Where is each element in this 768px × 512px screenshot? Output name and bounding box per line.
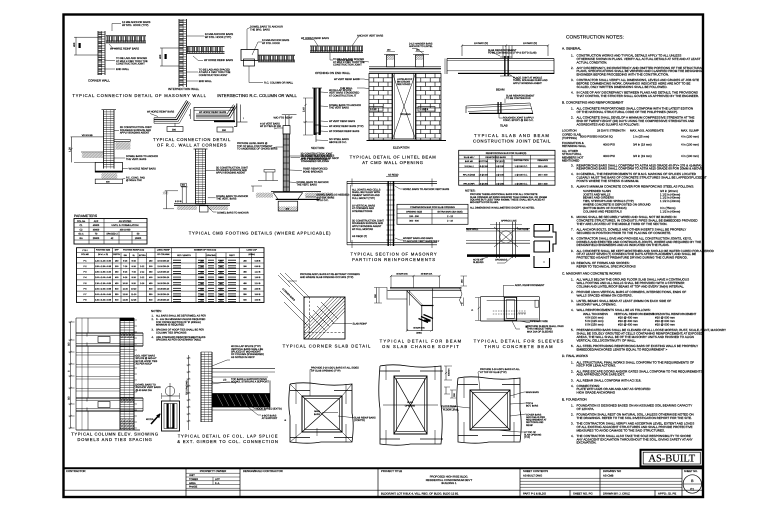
svg-text:AXF: AXF	[94, 220, 99, 223]
svg-text:1.: 1.	[571, 107, 574, 111]
svg-text:2.30 x 2.30 x 0.50: 2.30 x 2.30 x 0.50	[95, 282, 112, 285]
svg-text:W/ VERT REINF BARS: W/ VERT REINF BARS	[334, 78, 360, 81]
svg-text:LOCATION: LOCATION	[562, 128, 577, 132]
svg-text:MID-DEPTH FOR SLABS.: MID-DEPTH FOR SLABS.	[470, 201, 499, 204]
svg-text:0.35 B: 0.35 B	[255, 259, 261, 262]
sheet border frame	[64, 15, 704, 498]
svg-text:SLEEVES: SLEEVES	[473, 261, 484, 264]
svg-text:(MIN): (MIN)	[416, 332, 422, 335]
detail cmb footing center section	[237, 115, 349, 211]
svg-text:THE BRG. BARS: THE BRG. BARS	[250, 28, 270, 31]
svg-text:PHASE: PHASE	[189, 486, 198, 489]
AS-BUILT stamp box	[641, 450, 704, 467]
svg-text:TO BE CONTINUOUS: TO BE CONTINUOUS	[506, 97, 531, 100]
svg-text:AS REQD: AS REQD	[388, 174, 399, 177]
svg-text:TYPICAL SECTION OF MASONRY: TYPICAL SECTION OF MASONRY	[351, 252, 438, 257]
svg-text:A. GENERAL: A. GENERAL	[562, 47, 581, 51]
svg-text:END WALL: END WALL	[116, 68, 130, 71]
svg-text:SPACING: SPACING	[207, 254, 216, 257]
svg-text:W/ 10 TIES @ 200: W/ 10 TIES @ 200	[260, 125, 281, 128]
svg-text:OF R.C. WALL AT CORNERS: OF R.C. WALL AT CORNERS	[157, 143, 227, 148]
svg-text:1 1/2 in (40mm): 1 1/2 in (40mm)	[660, 209, 680, 213]
svg-text:THAT CONTROL THE STRICTER SHAL: THAT CONTROL THE STRICTER SHALL GOVERN A…	[577, 94, 700, 98]
svg-text:COL MK: COL MK	[81, 253, 89, 256]
svg-text:REINFORCING BAR FOR SLABS(S: REINFORCING BAR FOR SLABS(S)	[486, 152, 527, 155]
svg-text:AS PER NSCP: AS PER NSCP	[136, 363, 153, 366]
svg-text:MENTIONED: MENTIONED	[562, 158, 579, 162]
svg-text:AS REQD (T): AS REQD (T)	[352, 235, 367, 238]
svg-text:16-20 DIA 20: 16-20 DIA 20	[157, 282, 170, 285]
svg-text:SECURED IN POSITION PRIOR TO T: SECURED IN POSITION PRIOR TO THE PLACING…	[577, 231, 672, 235]
svg-text:3/4 in (19 mm): 3/4 in (19 mm)	[633, 143, 652, 147]
svg-text:10-20: 10-20	[131, 287, 137, 290]
svg-text:C. MASONRY AND CONCRETE WORKS: C. MASONRY AND CONCRETE WORKS	[562, 271, 621, 275]
svg-text:TOWER: TOWER	[189, 478, 198, 481]
svg-text:BARS: BARS	[314, 413, 321, 416]
svg-text:1.60 B: 1.60 B	[255, 276, 261, 279]
svg-text:40 BAR DIA: 40 BAR DIA	[413, 326, 425, 329]
svg-text:1 @ 200 O.C.: 1 @ 200 O.C.	[515, 183, 528, 186]
svg-text:6.: 6.	[571, 344, 574, 348]
svg-text:W/ STD. HOOK: W/ STD. HOOK	[262, 42, 280, 45]
svg-text:LINTEL/ROOF: LINTEL/ROOF	[397, 78, 413, 81]
svg-text:SHEET CONTENTS: SHEET CONTENTS	[523, 469, 548, 473]
svg-text:1.50 x 1.50 x 0.35: 1.50 x 1.50 x 0.35	[95, 265, 112, 268]
svg-text:COVER BARS: COVER BARS	[526, 413, 542, 416]
svg-text:12-25: 12-25	[123, 299, 129, 302]
svg-text:6.: 6.	[571, 215, 574, 219]
svg-text:CONC. EPOXY @ 300 O.C.: CONC. EPOXY @ 300 O.C.	[503, 119, 534, 122]
svg-text:10.: 10.	[571, 261, 575, 265]
svg-text:40 BAR DIA: 40 BAR DIA	[421, 273, 433, 276]
svg-text:ELEVATION: ELEVATION	[393, 146, 409, 150]
svg-text:W/ 10 O.C.: W/ 10 O.C.	[317, 199, 329, 202]
svg-text:POINTS WHERE THE STRESS IS MIN: POINTS WHERE THE STRESS IS MINIMUM.	[577, 179, 640, 183]
svg-text:4000 PSI: 4000 PSI	[603, 154, 615, 158]
svg-text:5.: 5.	[571, 185, 574, 189]
svg-text:150 = 400: 150 = 400	[538, 165, 548, 168]
svg-text:6 IN (150 mm): 6 IN (150 mm)	[585, 323, 604, 327]
svg-text:SLAB: SLAB	[407, 401, 413, 404]
svg-text:FOOTING SIZE: FOOTING SIZE	[96, 249, 111, 252]
svg-text:CONSTRUCTION JOINT: CONSTRUCTION JOINT	[333, 64, 362, 67]
svg-text:2.: 2.	[571, 66, 574, 70]
svg-text:1.00: 1.00	[69, 147, 72, 152]
svg-text:BOND BREAKER: BOND BREAKER	[303, 170, 323, 173]
svg-text:APPROX LINE: APPROX LINE	[501, 220, 517, 223]
svg-text:150 = 400: 150 = 400	[538, 174, 548, 177]
svg-text:E. FOUNDATION: E. FOUNDATION	[562, 397, 587, 401]
svg-text:4.: 4.	[571, 91, 574, 95]
svg-text:AT SUPPORT: AT SUPPORT	[262, 417, 278, 420]
svg-text:W/ FULL MORTAR: W/ FULL MORTAR	[352, 228, 373, 231]
svg-text:2.60 x 2.60 x 0.55: 2.60 x 2.60 x 0.55	[95, 287, 112, 290]
svg-text:AT CMD WALL OPENING: AT CMD WALL OPENING	[362, 160, 424, 165]
svg-text:STAGGERED SPLICING: STAGGERED SPLICING	[301, 160, 329, 163]
svg-text:NEW WALL: NEW WALL	[466, 228, 479, 231]
svg-text:ALL REBAR SHALL CONFORM WITH A: ALL REBAR SHALL CONFORM WITH ACI 318.	[577, 378, 642, 382]
svg-text:3.: 3.	[571, 422, 574, 426]
svg-text:10 @ 200: 10 @ 200	[479, 183, 489, 186]
svg-text:AS NOTED IN NSCP: AS NOTED IN NSCP	[231, 356, 255, 359]
detail rc wall footing left	[69, 110, 159, 184]
svg-text:GL-1: GL-1	[78, 233, 84, 236]
svg-text:2.: 2.	[152, 318, 154, 321]
svg-text:VD NG BB: VD NG BB	[82, 134, 93, 137]
svg-text:(TOPPING): (TOPPING)	[562, 136, 577, 140]
svg-text:2-12Ø: 2-12Ø	[370, 108, 377, 111]
svg-text:TYPICAL CMB FOOTING DETAILS: TYPICAL CMB FOOTING DETAILS (WHERE APPLI…	[189, 231, 331, 236]
svg-text:AGGREGATES AND SLUMPS AS FOLLO: AGGREGATES AND SLUMPS AS FOLLOWS:	[577, 122, 640, 126]
svg-text:3.40 x 3.40 x 0.65: 3.40 x 3.40 x 0.65	[95, 299, 112, 302]
svg-text:5000 PSI/350 KG/CM SQ: 5000 PSI/350 KG/CM SQ	[580, 134, 614, 138]
svg-text:ALL BARS SHALL BE DEFORMED, AS: ALL BARS SHALL BE DEFORMED, AS PER	[156, 315, 206, 318]
svg-text:HORIZ. BARS TO ANCHOR VERT BAR: HORIZ. BARS TO ANCHOR VERT BARS	[403, 188, 450, 191]
svg-text:AT TOP OF: AT TOP OF	[524, 431, 537, 434]
svg-text:2.40: 2.40	[303, 107, 306, 112]
svg-text:3.: 3.	[152, 329, 154, 332]
svg-text:ACTUAL CONDITION.: ACTUAL CONDITION.	[577, 60, 608, 64]
svg-text:MAX. SLUMP: MAX. SLUMP	[681, 128, 699, 132]
detail column lap splice and girder connection	[186, 352, 275, 430]
svg-text:OF 120 KPA.: OF 120 KPA.	[577, 407, 595, 411]
svg-text:SEE SCHED: SEE SCHED	[397, 83, 411, 86]
svg-text:W/O FTG REINF: W/O FTG REINF	[274, 117, 293, 120]
detail slab opening plan middle	[379, 365, 460, 445]
svg-text:MAX. AGG. AGGREGATE: MAX. AGG. AGGREGATE	[630, 128, 664, 132]
svg-text:01: 01	[690, 488, 694, 492]
svg-text:MAX DIA OF SLEEVES: MAX DIA OF SLEEVES	[527, 330, 553, 333]
svg-text:TO ANCHOR VERT BARS ONLY: TO ANCHOR VERT BARS ONLY	[403, 240, 440, 243]
svg-text:40000: 40000	[93, 224, 100, 227]
detail lap splice section box	[146, 383, 180, 431]
svg-text:8.: 8.	[571, 237, 574, 241]
svg-text:1 @ 200: 1 @ 200	[496, 183, 505, 186]
svg-text:3.00 x 3.00 x 0.60: 3.00 x 3.00 x 0.60	[95, 293, 112, 296]
svg-text:APPLY BONDING AGENT: APPLY BONDING AGENT	[216, 172, 246, 175]
svg-text:4.: 4.	[152, 336, 154, 339]
svg-text:2.: 2.	[571, 116, 574, 120]
svg-text:TOP &: TOP &	[526, 402, 533, 405]
svg-text:THE VERT. BARS: THE VERT. BARS	[297, 184, 318, 187]
svg-text:20000: 20000	[93, 237, 100, 240]
svg-text:5.: 5.	[571, 328, 574, 332]
svg-text:3.: 3.	[571, 163, 574, 167]
svg-text:NOTES:: NOTES:	[465, 188, 476, 192]
svg-text:HOOK BARS 2 (EXT'D): HOOK BARS 2 (EXT'D)	[256, 407, 282, 410]
svg-text:400 & 600: 400 & 600	[120, 228, 131, 231]
svg-text:0.60 B: 0.60 B	[255, 265, 261, 268]
svg-text:LONG. REINF: LONG. REINF	[157, 249, 171, 252]
svg-text:AREA: AREA	[189, 482, 196, 485]
svg-text:NSCP FOR LEAN ACTIONS.: NSCP FOR LEAN ACTIONS.	[577, 364, 617, 368]
svg-text:1 @ 150 O.C.: 1 @ 150 O.C.	[515, 174, 528, 177]
svg-text:12-20: 12-20	[123, 293, 129, 296]
svg-text:W/ STD. HOOK (TYP): W/ STD. HOOK (TYP)	[205, 36, 232, 39]
svg-text:RETAINING WALL: RETAINING WALL	[562, 144, 586, 148]
svg-text:TYPICAL CONNECTION DETAIL: TYPICAL CONNECTION DETAIL	[153, 137, 231, 142]
svg-text:MAIN BARS: MAIN BARS	[526, 391, 539, 394]
svg-text:AND APPROVED FOR SAFE EXIT.: AND APPROVED FOR SAFE EXIT.	[577, 373, 625, 377]
svg-text:EXTRA: EXTRA	[139, 254, 146, 257]
svg-text:(CONT'D): (CONT'D)	[354, 419, 365, 422]
svg-text:3/4 in (19 mm): 3/4 in (19 mm)	[633, 154, 652, 158]
svg-text:& EXT. GIRDER TO COL. CON: & EXT. GIRDER TO COL. CONNECTION	[177, 439, 278, 444]
svg-text:REFER TO TECHNICAL SPECIFICATI: REFER TO TECHNICAL SPECIFICATIONS	[577, 265, 636, 269]
labels for lap splice detail	[136, 345, 282, 420]
svg-text:NOTES:: NOTES:	[151, 309, 162, 313]
svg-text:4000 PSI: 4000 PSI	[603, 143, 615, 147]
svg-text:4 in (100 mm): 4 in (100 mm)	[681, 154, 699, 158]
svg-text:20-25 DIA 20: 20-25 DIA 20	[157, 293, 170, 296]
svg-text:W/ HORIZ REINF BARS: W/ HORIZ REINF BARS	[204, 59, 233, 62]
svg-text:ADD'L REINFORCEMENT: ADD'L REINFORCEMENT	[515, 284, 545, 287]
svg-text:150 - 300: 150 - 300	[409, 215, 419, 218]
svg-text:BM 150x300: BM 150x300	[397, 81, 411, 84]
svg-text:HIGH GRADE ANCHORING: HIGH GRADE ANCHORING	[577, 391, 616, 395]
svg-text:ENGINEER BEFORE PROCEEDING WIT: ENGINEER BEFORE PROCEEDING WITH THE CONS…	[577, 73, 670, 77]
svg-text:1.: 1.	[571, 404, 574, 408]
svg-text:10-16 DIA 20: 10-16 DIA 20	[157, 259, 170, 262]
svg-text:F. A.: F. A.	[215, 482, 220, 485]
detail slab plan at column left	[284, 367, 376, 444]
detail masonry wall intersecting rc column	[241, 26, 295, 85]
svg-text:2.: 2.	[571, 290, 574, 294]
svg-text:TIE SPACING: TIE SPACING	[186, 380, 189, 395]
svg-text:OPENINGS: OPENINGS	[495, 258, 508, 261]
svg-text:REST: REST	[229, 254, 235, 257]
svg-text:OF SLAB OPENING (TYP): OF SLAB OPENING (TYP)	[311, 369, 341, 372]
svg-text:ANCHOR TO LINTEL: ANCHOR TO LINTEL	[409, 45, 433, 48]
svg-text:1 @ 150: 1 @ 150	[496, 174, 505, 177]
svg-text:1 in (25 mm): 1 in (25 mm)	[633, 134, 649, 138]
svg-text:200 = 400: 200 = 400	[538, 183, 548, 186]
svg-text:THEY ARE LOCATED AT THE MIDDLE: THEY ARE LOCATED AT THE MIDDLE THIRD OF …	[577, 222, 668, 226]
svg-text:3.: 3.	[571, 78, 574, 82]
svg-text:11-20: 11-20	[131, 293, 137, 296]
svg-text:W/ HORIZ REINF BARS: W/ HORIZ REINF BARS	[110, 47, 139, 50]
detail masonry wall vertical section	[291, 88, 364, 163]
svg-text:300 - 600: 300 - 600	[409, 220, 419, 223]
svg-text:20-25 DIA 20: 20-25 DIA 20	[157, 299, 170, 302]
svg-text:ANCHOR VERT BARS: ANCHOR VERT BARS	[357, 35, 384, 38]
svg-text:CORNER WALL: CORNER WALL	[88, 79, 110, 83]
detail beam on slab change soffit	[374, 273, 467, 335]
svg-text:CONSTRUCTION JOINT: CONSTRUCTION JOINT	[116, 63, 145, 66]
svg-text:2 - 16: 2 - 16	[447, 220, 454, 223]
detail typical corner slab	[278, 273, 367, 339]
svg-text:AT TOP OF SLAB (TYP): AT TOP OF SLAB (TYP)	[480, 371, 507, 374]
svg-text:R.C. COLUMN OR WALL: R.C. COLUMN OR WALL	[264, 81, 294, 84]
svg-text:SLAB REINF: SLAB REINF	[353, 322, 368, 325]
svg-text:40 Dia: 40 Dia	[168, 427, 175, 430]
svg-text:SCALED, ONLY WRITTEN DIMENSION: SCALED, ONLY WRITTEN DIMENSIONS SHALL BE…	[577, 85, 668, 89]
detail rc wall corner bars left	[147, 100, 191, 131]
svg-text:LOAD CAP: LOAD CAP	[247, 249, 258, 252]
svg-text:2.80 B: 2.80 B	[255, 287, 261, 290]
svg-text:REQUIREMENT AT: REQUIREMENT AT	[526, 419, 547, 422]
detail beam construction joint	[409, 42, 554, 91]
svg-text:DISTRIBUTION: DISTRIBUTION	[514, 159, 529, 162]
svg-text:REINFORCED BARS: REINFORCED BARS	[485, 156, 506, 159]
svg-text:4.60 B: 4.60 B	[255, 299, 261, 302]
svg-text:W/ STD. HOOK (TYP): W/ STD. HOOK (TYP)	[122, 24, 149, 27]
detail lintel beam at cmu wall opening elevation	[334, 49, 446, 150]
svg-text:SLAB OPENING: SLAB OPENING	[524, 433, 542, 436]
svg-text:AT CONSTRUCTION JT: AT CONSTRUCTION JT	[329, 94, 357, 97]
svg-text:10000: 10000	[135, 237, 142, 240]
notes list under schedule table	[151, 309, 206, 342]
svg-text:11-20: 11-20	[123, 287, 129, 290]
detail beam bracket section right	[534, 225, 556, 268]
svg-text:10 @ 150: 10 @ 150	[479, 174, 489, 177]
svg-text:MINIMUM IS REQUIRED: MINIMUM IS REQUIRED	[156, 324, 184, 327]
svg-text:SET / LENGTH: SET / LENGTH	[177, 254, 191, 257]
svg-text:FTG /: FTG /	[82, 249, 88, 252]
svg-text:PROJECT TITLE: PROJECT TITLE	[381, 469, 402, 473]
notes under reinforcing table	[465, 188, 547, 209]
svg-text:LINTEL BEAM: LINTEL BEAM	[337, 59, 353, 62]
svg-text:3.: 3.	[571, 299, 574, 303]
svg-text:12-25: 12-25	[131, 299, 137, 302]
svg-text:1.10 B: 1.10 B	[255, 271, 261, 274]
svg-text:THE DRAWINGS. REFER TO THE SOI: THE DRAWINGS. REFER TO THE SOIL INVESTIG…	[577, 416, 692, 420]
svg-text:SPACED 2: SPACED 2	[106, 233, 118, 236]
svg-text:THE VERT. BARS: THE VERT. BARS	[126, 158, 147, 161]
svg-text:BOT. BARS: BOT. BARS	[526, 405, 539, 408]
svg-text:END WALL: END WALL	[199, 80, 213, 83]
svg-text:10-20: 10-20	[123, 282, 129, 285]
svg-text:28 DAYS STRENGTH: 28 DAYS STRENGTH	[597, 128, 625, 132]
svg-text:COMPARISON BAR FOR SLAB OP: COMPARISON BAR FOR SLAB OPENING	[410, 206, 455, 209]
svg-text:2-12Ø B: 2-12Ø B	[420, 108, 429, 111]
svg-text:(W x L x D): (W x L x D)	[98, 253, 108, 256]
svg-text:2.00 x 2.00 x 0.45: 2.00 x 2.00 x 0.45	[95, 276, 112, 279]
svg-text:APPLY BONDING AGENT: APPLY BONDING AGENT	[120, 132, 150, 135]
svg-text:1 @ 150: 1 @ 150	[496, 165, 505, 168]
title block	[64, 467, 704, 469]
svg-text:SECTION: SECTION	[311, 146, 324, 150]
svg-text:THE VERT. BARS: THE VERT. BARS	[216, 198, 237, 201]
svg-text:VERTICAL CELLS/CONTINUITY OF W: VERTICAL CELLS/CONTINUITY OF WALL.	[577, 338, 637, 342]
svg-text:DEPTH: DEPTH	[113, 253, 120, 256]
svg-text:TO UNDERSIDE OF CHORD BARS: TO UNDERSIDE OF CHORD BARS	[237, 148, 278, 151]
svg-text:UNTIL S. FORMULATION: UNTIL S. FORMULATION	[112, 224, 139, 227]
detail sleeves thru concrete beam	[471, 284, 564, 333]
svg-text:SLAB MK /: SLAB MK /	[464, 156, 475, 159]
detail typical column elevation with dowels and ties	[68, 318, 143, 430]
svg-text:MASONRY WALL OPENING.: MASONRY WALL OPENING.	[577, 302, 617, 306]
svg-text:FOOTING REINF (mm): FOOTING REINF (mm)	[123, 249, 144, 252]
svg-text:4 in (100 mm): 4 in (100 mm)	[681, 134, 699, 138]
svg-text:@ 40 BAR DIA: @ 40 BAR DIA	[136, 389, 153, 392]
svg-text:TYPICAL CONNECTION DETAIL O: TYPICAL CONNECTION DETAIL OF MASONRY WAL…	[72, 93, 206, 98]
svg-text:2-S (ALL): 2-S (ALL)	[464, 165, 473, 168]
svg-text:4.: 4.	[571, 172, 574, 176]
svg-text:FLOOR SLAB: FLOOR SLAB	[442, 405, 457, 408]
svg-text:SHEET NO.: SHEET NO.	[684, 470, 698, 473]
comparison table of slab openings	[397, 204, 468, 224]
svg-text:1.: 1.	[571, 278, 574, 282]
detail opening on end wall	[301, 35, 384, 75]
svg-text:APP'D: JD. PE: APP'D: JD. PE	[658, 492, 676, 496]
svg-text:COLUMNS AND PEDESTALS: COLUMNS AND PEDESTALS	[583, 209, 622, 213]
svg-text:THK SLAB: THK SLAB	[517, 228, 529, 231]
svg-text:1.: 1.	[571, 54, 574, 58]
svg-text:16-20 DIA 20: 16-20 DIA 20	[157, 276, 170, 279]
detail slab corner plan right	[442, 368, 548, 443]
detail typical section of masonry partition	[347, 174, 450, 249]
svg-text:2.: 2.	[571, 413, 574, 417]
svg-text:TYPICAL CORNER SLAB DETAIL: TYPICAL CORNER SLAB DETAIL	[283, 344, 372, 349]
svg-text:SHEET NO. PG: SHEET NO. PG	[573, 492, 593, 496]
svg-text:DOWEL BARS TO ANCHOR: DOWEL BARS TO ANCHOR	[217, 211, 249, 214]
svg-text:AND DIM AS PER: AND DIM AS PER	[526, 416, 545, 419]
svg-text:4 in (100 mm): 4 in (100 mm)	[681, 143, 699, 147]
svg-text:W/ VERT REINF BARS: W/ VERT REINF BARS	[329, 120, 355, 123]
svg-text:FULL GROUT (TYP): FULL GROUT (TYP)	[352, 197, 375, 200]
svg-text:#10 @ 400 mm: #10 @ 400 mm	[618, 323, 638, 327]
detail rc wall corner bars right	[189, 104, 247, 133]
svg-text:4.: 4.	[571, 308, 574, 312]
svg-text:#10 @ 600 mm: #10 @ 600 mm	[655, 323, 675, 327]
svg-text:AS-CMB: AS-CMB	[603, 474, 614, 477]
svg-text:AS STATED: AS STATED	[119, 220, 132, 223]
svg-text:DWG/REV NO: DWG/REV NO	[603, 469, 622, 473]
svg-text:L/4 MAX (N): L/4 MAX (N)	[474, 42, 488, 45]
svg-text:TYPICAL DETAIL OF COL. LAP: TYPICAL DETAIL OF COL. LAP SPLICE	[178, 434, 279, 439]
svg-text:DESIGN/FIELD ENGINEERS AND AS: DESIGN/FIELD ENGINEERS AND AS INDICATED …	[577, 243, 670, 247]
svg-text:W/ HORIZ REINF BARS: W/ HORIZ REINF BARS	[147, 111, 175, 114]
svg-text:TYPICAL DETAIL FOR SLEEVES: TYPICAL DETAIL FOR SLEEVES	[474, 339, 565, 344]
svg-text:1.: 1.	[571, 360, 574, 364]
svg-text:REMARKS: REMARKS	[537, 159, 548, 162]
schedule table of footings	[77, 248, 265, 303]
svg-text:MAIN: MAIN	[314, 410, 320, 413]
detail slab opening with pipe sleeve	[466, 220, 530, 265]
svg-text:REINFORCING BARS SHALL CONFORM: REINFORCING BARS SHALL CONFORM TO ASTM A…	[577, 167, 704, 171]
svg-text:1.20 x 1.20 x 0.30: 1.20 x 1.20 x 0.30	[95, 259, 112, 262]
svg-text:7.: 7.	[571, 228, 574, 232]
svg-text:3.60 B: 3.60 B	[255, 293, 261, 296]
svg-text:9.: 9.	[571, 249, 574, 253]
svg-text:TYPICAL DETAIL OF LINTEL B: TYPICAL DETAIL OF LINTEL BEAM	[350, 155, 437, 160]
svg-text:PARTITION REINFORCEMENTS: PARTITION REINFORCEMENTS	[352, 257, 436, 262]
svg-text:PROPERTY OWNER: PROPERTY OWNER	[200, 469, 226, 473]
svg-text:BEAM: BEAM	[496, 88, 505, 92]
svg-text:DESIGN/BUILD CONTRACTOR: DESIGN/BUILD CONTRACTOR	[243, 469, 283, 473]
svg-text:OPENING SIZE: OPENING SIZE	[406, 210, 423, 213]
svg-text:THRU CONCRETE BEAM: THRU CONCRETE BEAM	[484, 344, 553, 349]
svg-text:3.: 3.	[571, 378, 574, 382]
svg-text:1 @ 150 O.C.: 1 @ 150 O.C.	[515, 165, 528, 168]
svg-text:MEASURES TO AVOID DAMAGE TO TH: MEASURES TO AVOID DAMAGE TO THE SAID STR…	[577, 428, 666, 432]
svg-text:@ 50mm THK: @ 50mm THK	[126, 179, 142, 182]
svg-text:THE VERT BARS: THE VERT BARS	[329, 107, 349, 110]
svg-text:RFL-B (RF): RFL-B (RF)	[464, 183, 475, 186]
parameters table	[74, 214, 147, 244]
svg-text:BUILDING 1: BUILDING 1	[442, 482, 457, 485]
detail intersection wall masonry connection	[159, 19, 233, 91]
svg-text:SECTIONS AND: SECTIONS AND	[526, 421, 544, 424]
svg-text:W/ HORIZ REINF BARS: W/ HORIZ REINF BARS	[129, 168, 157, 171]
svg-text:TYPICAL SLAB AND BEAM: TYPICAL SLAB AND BEAM	[474, 133, 550, 138]
svg-text:40 DIA: 40 DIA	[146, 418, 154, 421]
svg-text:TO BE CONTINUOUS (TYP & EXT'D: TO BE CONTINUOUS (TYP & EXT'D SLAB)	[488, 52, 537, 55]
svg-text:B 10 B: B 10 B	[175, 200, 182, 203]
svg-text:40 BAR DIA: 40 BAR DIA	[396, 273, 408, 276]
svg-text:40000: 40000	[93, 228, 100, 231]
